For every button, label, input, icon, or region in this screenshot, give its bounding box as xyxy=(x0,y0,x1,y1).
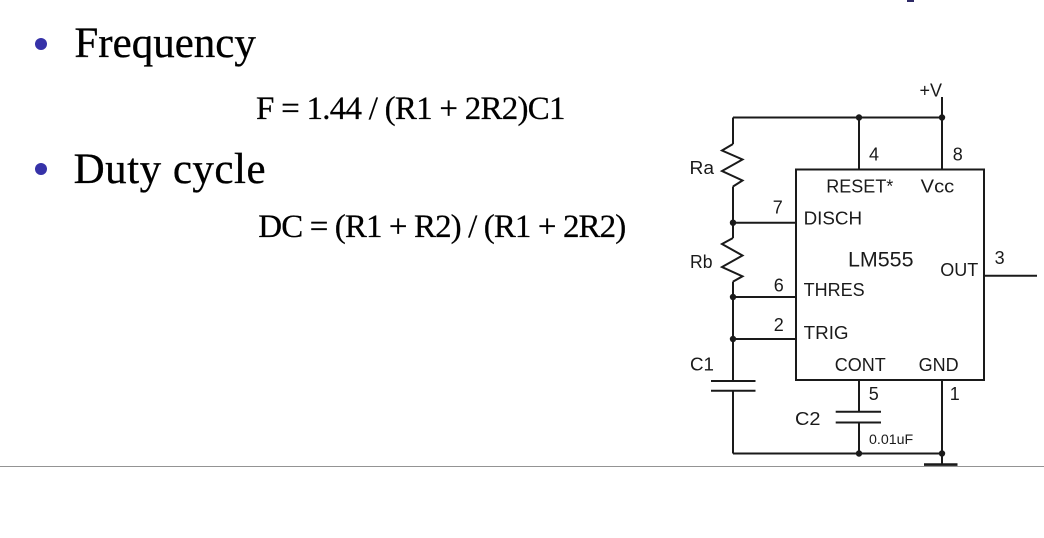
svg-text:GND: GND xyxy=(919,355,959,375)
svg-text:DISCH: DISCH xyxy=(804,208,863,228)
svg-text:6: 6 xyxy=(774,276,784,296)
svg-text:CONT: CONT xyxy=(835,355,886,375)
svg-text:+V: +V xyxy=(920,81,943,101)
svg-text:Rb: Rb xyxy=(690,252,713,272)
svg-text:4: 4 xyxy=(869,144,879,164)
svg-text:RESET*: RESET* xyxy=(826,176,893,196)
svg-text:OUT: OUT xyxy=(940,260,978,280)
svg-text:2: 2 xyxy=(774,315,784,335)
svg-text:8: 8 xyxy=(953,144,963,164)
svg-text:5: 5 xyxy=(869,384,879,404)
svg-text:C2: C2 xyxy=(795,409,821,429)
svg-text:3: 3 xyxy=(995,248,1005,268)
svg-text:0.01uF: 0.01uF xyxy=(869,432,914,448)
svg-text:LM555: LM555 xyxy=(848,249,914,272)
svg-text:Ra: Ra xyxy=(690,158,716,178)
svg-text:THRES: THRES xyxy=(804,280,865,300)
svg-text:TRIG: TRIG xyxy=(804,323,849,343)
svg-text:7: 7 xyxy=(773,198,783,218)
svg-text:Vcc: Vcc xyxy=(921,176,955,196)
svg-text:C1: C1 xyxy=(690,355,714,375)
svg-text:1: 1 xyxy=(950,384,960,404)
